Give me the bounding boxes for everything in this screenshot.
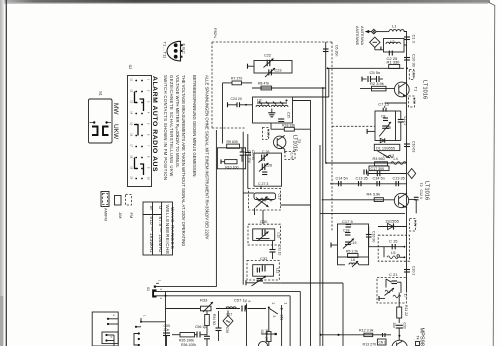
svg-text:L13: L13 (277, 233, 281, 239)
svg-text:ANTENNA: ANTENNA (360, 26, 365, 45)
svg-text:T1: T1 (414, 87, 419, 92)
svg-text:L4: L4 (394, 157, 398, 161)
svg-text:C57 1µ: C57 1µ (234, 298, 248, 303)
svg-text:a: a (248, 301, 252, 303)
svg-text:0.5V: 0.5V (412, 71, 416, 78)
svg-text:UKW: UKW (112, 124, 119, 140)
svg-text:L1: L1 (392, 24, 397, 29)
svg-text:R12 3.9k: R12 3.9k (359, 328, 374, 332)
svg-text:R10 100: R10 100 (225, 166, 238, 170)
svg-text:L11: L11 (276, 268, 280, 273)
svg-text:R18 33k: R18 33k (282, 123, 295, 127)
svg-text:L7: L7 (403, 294, 407, 298)
svg-text:C25 10µ: C25 10µ (247, 151, 251, 163)
svg-text:LT1016: LT1016 (422, 80, 428, 99)
svg-text:LT1016: LT1016 (292, 135, 298, 152)
svg-text:87.5 — 104MHz: 87.5 — 104MHz (158, 217, 163, 253)
svg-text:C29: C29 (278, 194, 282, 200)
svg-text:ANTENNE: ANTENNE (355, 26, 360, 45)
svg-text:R2 3.9k: R2 3.9k (370, 81, 384, 86)
svg-text:C13 35: C13 35 (356, 177, 368, 181)
svg-text:ALARM AUTO RADIO AUS: ALARM AUTO RADIO AUS (151, 76, 158, 172)
svg-text:C56 1µ: C56 1µ (195, 325, 206, 329)
svg-text:WELLENBEREICHE: WELLENBEREICHE (165, 205, 170, 255)
svg-text:3: 3 (272, 316, 276, 318)
svg-text:S2: S2 (128, 65, 133, 71)
svg-text:C20 2: C20 2 (412, 266, 416, 275)
svg-text:C33: C33 (403, 323, 407, 329)
svg-text:R4 3.9k: R4 3.9k (367, 192, 381, 197)
svg-text:S51: S51 (280, 315, 284, 321)
svg-text:L6: L6 (351, 258, 355, 262)
svg-text:C17 300: C17 300 (371, 167, 385, 171)
svg-text:T2: T2 (419, 183, 423, 187)
svg-text:C34 5n: C34 5n (373, 177, 385, 181)
svg-text:D1 1S9555: D1 1S9555 (376, 146, 395, 150)
svg-text:C1 3: C1 3 (412, 35, 417, 44)
svg-text:C58: C58 (225, 327, 229, 333)
svg-text:L2: L2 (390, 39, 395, 44)
svg-text:2.6V: 2.6V (413, 220, 417, 227)
svg-text:BETRIEBSSPANNUNG GEGEN MINUS G: BETRIEBSSPANNUNG GEGEN MINUS GEMESSEN. (192, 75, 197, 178)
svg-text:R1 330: R1 330 (387, 60, 401, 65)
svg-text:C14 5n: C14 5n (336, 177, 348, 181)
svg-text:MW: MW (112, 103, 119, 115)
svg-text:S1: S1 (146, 287, 150, 291)
svg-text:0.7V: 0.7V (290, 153, 294, 160)
svg-text:C12 4: C12 4 (419, 190, 423, 199)
svg-text:C17 5: C17 5 (342, 219, 353, 224)
svg-text:C10 30: C10 30 (412, 54, 417, 68)
svg-text:U: U (158, 206, 163, 209)
svg-text:R7 270: R7 270 (231, 77, 242, 81)
svg-text:AM: AM (118, 213, 123, 219)
svg-text:C18: C18 (343, 229, 349, 233)
svg-text:510 — 1630kHz: 510 — 1630kHz (149, 217, 154, 254)
svg-text:C30: C30 (260, 219, 268, 224)
svg-text:C 15: C 15 (389, 239, 398, 244)
svg-text:T4: T4 (415, 336, 419, 340)
svg-text:1.0V: 1.0V (412, 98, 416, 105)
svg-text:T1 ... T11: T1 ... T11 (163, 42, 168, 60)
svg-text:AM/FM: AM/FM (104, 208, 109, 221)
svg-text:T3: T3 (297, 139, 301, 143)
svg-text:WAVE RANGES: WAVE RANGES (170, 207, 175, 250)
svg-text:R37 100: R37 100 (265, 330, 269, 342)
svg-text:ALLE SPANNUNGEN OHNE SIGNAL MI: ALLE SPANNUNGEN OHNE SIGNAL MIT EINEM IN… (205, 75, 210, 239)
svg-text:C7 15: C7 15 (378, 102, 389, 107)
svg-text:F82¼: F82¼ (213, 28, 218, 39)
svg-text:2: 2 (271, 303, 275, 305)
svg-text:R9 630: R9 630 (227, 140, 238, 144)
svg-text:R8 47k: R8 47k (258, 82, 269, 86)
svg-text:GEZEICHNETE SCHALTERSTELLUNG U: GEZEICHNETE SCHALTERSTELLUNG UKW (169, 75, 174, 177)
svg-text:R34 3Ω: R34 3Ω (212, 314, 216, 326)
svg-text:20n: 20n (164, 328, 170, 332)
svg-text:C28: C28 (266, 164, 272, 168)
svg-text:E B C: E B C (182, 44, 187, 55)
svg-text:SWITCH CONTACTS SHOWN IN FM PO: SWITCH CONTACTS SHOWN IN FM POSITION (163, 75, 168, 180)
svg-text:30n: 30n (392, 323, 396, 329)
svg-text:C 27 3: C 27 3 (258, 182, 268, 186)
svg-text:THE VOLTAGE MEASUREMENTS ARE T: THE VOLTAGE MEASUREMENTS ARE TAKEN WITHO… (181, 75, 186, 246)
svg-text:LT1016: LT1016 (424, 181, 430, 200)
svg-text:S2: S2 (260, 330, 264, 334)
svg-text:C23: C23 (275, 69, 282, 73)
svg-text:C12 2: C12 2 (403, 117, 407, 126)
svg-text:0.95V: 0.95V (266, 129, 270, 138)
svg-text:1: 1 (284, 303, 288, 305)
svg-text:1S1555: 1S1555 (385, 219, 400, 224)
svg-text:R5 2.2k: R5 2.2k (346, 250, 358, 254)
svg-text:S1: S1 (99, 91, 104, 97)
svg-text:C 21: C 21 (389, 272, 398, 277)
svg-text:C32: C32 (260, 256, 268, 261)
svg-text:C6 20n: C6 20n (335, 45, 339, 56)
svg-text:R33: R33 (200, 298, 208, 303)
svg-text:C16 90: C16 90 (372, 231, 376, 242)
svg-text:C5 5n: C5 5n (370, 70, 381, 75)
svg-text:C15: C15 (287, 112, 291, 118)
svg-text:R3 560: R3 560 (373, 157, 385, 161)
svg-text:CN 1: CN 1 (379, 341, 386, 345)
svg-text:FM: FM (129, 213, 134, 219)
svg-text:M: M (149, 206, 154, 210)
svg-text:VOLTAGE WITH METER Rₐ=20kΩ/V T: VOLTAGE WITH METER Rₐ=20kΩ/V TO MINUS. (175, 75, 180, 168)
svg-text:C22: C22 (264, 54, 271, 58)
svg-text:C31 10: C31 10 (278, 245, 282, 256)
svg-text:R11 22: R11 22 (404, 305, 408, 316)
svg-text:C10 63: C10 63 (412, 141, 416, 152)
svg-text:C13 35: C13 35 (393, 177, 405, 181)
svg-text:R13 270: R13 270 (363, 342, 377, 346)
svg-text:C24 20: C24 20 (231, 97, 242, 101)
svg-text:L5: L5 (391, 250, 396, 255)
svg-text:C 26: C 26 (262, 150, 269, 154)
